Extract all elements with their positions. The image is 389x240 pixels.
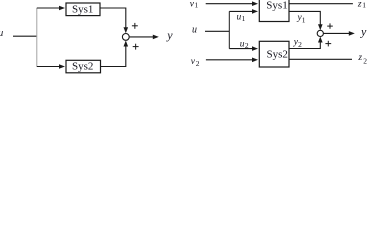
svg-text:2: 2 (298, 40, 302, 49)
plus sign bottom (left summer) (133, 44, 139, 50)
node z1 (357, 0, 366, 10)
svg-text:Sys2: Sys2 (267, 49, 288, 61)
svg-text:Sys2: Sys2 (72, 61, 93, 73)
wire u2 into Sys2 with arrow (229, 46, 258, 51)
wire y2 to summer (right then up) (289, 37, 323, 49)
svg-text:u: u (192, 25, 197, 36)
wire u1 into Sys1 with arrow (229, 9, 258, 14)
block Sys1 (left) (66, 3, 100, 16)
svg-text:z: z (357, 0, 362, 9)
label y2 (293, 38, 302, 49)
block Sys1 (right, top edge clipped) (259, 0, 289, 22)
svg-text:2: 2 (196, 59, 200, 68)
plus sign top (right summer) (327, 23, 333, 28)
label u1 (237, 13, 246, 23)
wire summer to y output with arrow (129, 35, 159, 40)
wire z1 output (289, 3, 353, 5)
wire into Sys1 (left) with arrow (37, 6, 65, 11)
wire Sys2 to summer (right then up) (101, 41, 129, 67)
svg-text:1: 1 (195, 1, 199, 10)
label y1 (297, 13, 306, 24)
svg-text:u: u (0, 28, 3, 39)
node v2 (191, 57, 200, 68)
svg-text:1: 1 (242, 14, 246, 23)
svg-text:y: y (166, 28, 173, 42)
block Sys2 (left) (66, 60, 101, 73)
summing junction (left) (122, 34, 129, 41)
svg-text:z: z (357, 53, 362, 63)
wire summer to y output with arrow (323, 31, 354, 36)
svg-text:Sys1: Sys1 (72, 3, 93, 15)
node v1 (190, 0, 199, 10)
wire into Sys2 (left) with arrow (37, 64, 65, 69)
wire v1 into Sys1 with arrow (206, 1, 258, 6)
wire branch vertical (36, 8, 38, 67)
svg-text:y: y (360, 25, 367, 39)
wire u horizontal (205, 30, 229, 32)
svg-text:1: 1 (362, 1, 366, 10)
svg-text:2: 2 (363, 57, 367, 66)
svg-text:Sys1: Sys1 (266, 0, 287, 12)
label u2 (240, 39, 249, 50)
wire y1 to summer (right then down) (289, 11, 323, 30)
wire u input horizontal (13, 35, 37, 37)
svg-text:2: 2 (245, 41, 249, 50)
wire u branch vertical (228, 11, 230, 48)
wire z2 output (289, 58, 352, 60)
plus sign bottom (right summer) (325, 41, 331, 47)
wire v2 into Sys2 with arrow (206, 58, 258, 63)
plus sign top (left summer) (132, 23, 138, 29)
block Sys2 (right) (259, 41, 289, 67)
svg-text:1: 1 (302, 15, 306, 24)
node z2 (357, 53, 367, 65)
wire Sys1 to summer (right then down) (100, 8, 128, 33)
summing junction (right) (317, 30, 323, 36)
